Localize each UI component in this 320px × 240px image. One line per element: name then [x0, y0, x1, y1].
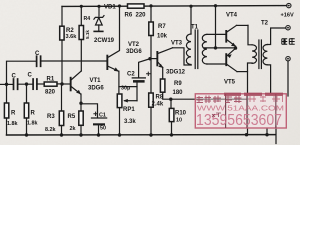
svg-text:VT2: VT2 [128, 42, 140, 48]
arrow VT1 emitter [76, 90, 81, 94]
svg-text:+16V: +16V [281, 13, 294, 19]
svg-text:R4: R4 [84, 16, 91, 22]
svg-text:C: C [12, 74, 17, 80]
node ground R3 [60, 133, 63, 136]
svg-text:R8: R8 [156, 95, 164, 101]
svg-text:3DG6: 3DG6 [126, 49, 142, 55]
svg-text:R9: R9 [174, 81, 182, 87]
node R9 R10 feedback [169, 98, 172, 101]
node VT1 emitter R5 [79, 102, 82, 105]
svg-text:C: C [35, 51, 40, 57]
svg-text:5.1k: 5.1k [85, 30, 90, 39]
svg-text:VT3: VT3 [171, 41, 183, 47]
svg-text:3DG12: 3DG12 [166, 70, 186, 76]
resistor R 1.8k second [26, 84, 28, 103]
resistor R8 [150, 59, 152, 93]
node ground R5 [79, 133, 82, 136]
terminal +16V center dot [288, 5, 290, 7]
resistor R1 [44, 82, 57, 86]
svg-text:10: 10 [176, 118, 182, 124]
arrow VT2 emitter [114, 67, 119, 71]
transformer T1 primary winding [186, 34, 191, 65]
capacitor C2 [132, 77, 145, 79]
svg-text:2k: 2k [70, 126, 76, 132]
capacitor C feedback [36, 56, 38, 66]
wire emitter supply drop [215, 6, 217, 48]
svg-text:10k: 10k [157, 34, 168, 40]
wire VT2 collector to rail [109, 6, 120, 57]
wire feedback line to VT2 base [41, 60, 106, 62]
transistor VT5 [225, 53, 227, 66]
terminal output top [286, 26, 290, 30]
paper grain [0, 0, 300, 145]
watermark column rules [225, 94, 227, 128]
wire VT5 collector to T2 [237, 71, 248, 73]
label output (Chinese 输出 drawn) [282, 38, 295, 44]
resistor R4 [80, 6, 82, 25]
capacitor C input 2 [32, 79, 34, 89]
node rail T1 primary [189, 5, 192, 8]
node ground R10 [170, 133, 173, 136]
wire T1 secondary top to VT4 base [207, 33, 225, 35]
svg-text:VT1: VT1 [90, 78, 102, 84]
svg-text:8.2k: 8.2k [45, 127, 56, 133]
wire T1 primary top lead [190, 6, 192, 34]
potentiometer RP1 [117, 94, 122, 108]
wire top supply rail [62, 5, 287, 8]
transistor VT3 [151, 58, 156, 60]
svg-text:820: 820 [45, 90, 56, 96]
wire below watermark to rail [275, 126, 277, 144]
resistor R2 [61, 6, 63, 26]
terminal output bottom [286, 57, 290, 61]
wire VT4 collector to T2 [237, 24, 249, 26]
node VT1 base [60, 82, 63, 85]
arrow VT4 emitter [231, 43, 236, 47]
svg-text:C2: C2 [127, 72, 135, 78]
svg-text:2.4k: 2.4k [152, 102, 164, 108]
wire T2 secondary bottom [267, 65, 270, 94]
svg-text:VT4: VT4 [226, 13, 238, 19]
node common emitters [234, 46, 237, 49]
watermark row1 right ticks [248, 96, 283, 103]
svg-text:R1: R1 [47, 77, 55, 83]
node ground T2 secondary [265, 133, 268, 136]
svg-text:R: R [31, 111, 36, 117]
wire stub T2 return to rail [266, 129, 268, 135]
svg-text:1.8k: 1.8k [7, 121, 18, 127]
resistor R9 [162, 68, 164, 80]
svg-text:T1: T1 [191, 25, 199, 31]
svg-text:3.6k: 3.6k [66, 34, 78, 40]
wire emitter to C2 jog [119, 86, 137, 88]
node ground T2 primary [245, 133, 248, 136]
resistor R3 [61, 84, 63, 111]
svg-text:R7: R7 [158, 24, 166, 30]
node rail VT2 collector [118, 4, 121, 7]
svg-text:C1: C1 [99, 113, 106, 119]
transistor VT2 [106, 55, 108, 70]
svg-text:3DG6: 3DG6 [88, 86, 104, 92]
node ground RP1 [118, 133, 121, 136]
node VT3 base [148, 57, 151, 60]
svg-text:50: 50 [100, 125, 106, 131]
node C1 plus sign [93, 112, 97, 116]
svg-text:T2: T2 [261, 21, 269, 27]
svg-text:C: C [28, 73, 33, 79]
watermark top border dashes [224, 93, 283, 96]
transistor VT1 [62, 83, 70, 85]
resistor R5 [80, 94, 82, 111]
node emitter supply [214, 46, 217, 49]
svg-text:R: R [11, 111, 16, 117]
watermark box [195, 94, 286, 128]
svg-text:3.3k: 3.3k [124, 119, 136, 125]
node input divider [25, 82, 28, 85]
resistor R6 [128, 4, 145, 8]
wire T1 center tap to emitters [205, 47, 236, 49]
svg-text:R3: R3 [47, 114, 55, 120]
arrowheads [76, 43, 236, 103]
resistor R7 [150, 6, 152, 22]
svg-text:R5: R5 [68, 114, 76, 120]
svg-text:R10: R10 [175, 111, 187, 117]
svg-text:RP1: RP1 [123, 107, 135, 113]
svg-text:30μ: 30μ [121, 86, 130, 92]
node rail emitter drop [214, 4, 217, 7]
node ground C1 [97, 133, 100, 136]
capacitor C1 branch [81, 104, 98, 118]
svg-text:R6 220: R6 220 [125, 13, 147, 19]
resistor R 1.8k first [6, 84, 8, 103]
wire feedback from output stage [171, 98, 248, 100]
wire bottom ground rail [7, 134, 276, 136]
svg-text:180: 180 [173, 90, 184, 96]
wire feedback riser [7, 61, 37, 84]
svg-text:VD1: VD1 [104, 5, 116, 11]
node ground R second [25, 133, 28, 136]
node C2 plus sign [146, 72, 150, 76]
node ground R8 [149, 133, 152, 136]
transformer T1 secondary winding [202, 34, 207, 64]
wire output terminal 2 lead [287, 61, 289, 96]
wire T2 secondary top to output [267, 28, 285, 45]
transformer T2 primary leads [248, 25, 252, 44]
arrow VT3 emitter [158, 64, 163, 68]
watermark chinese row [197, 96, 242, 104]
transformer T2 secondary winding [263, 45, 267, 65]
capacitor C input 1 [0, 83, 13, 85]
terminal output bottom center dot [287, 58, 289, 60]
watermark small dark mark [212, 113, 221, 117]
node rail VD1 [97, 5, 100, 8]
wiper arrow RP1 [125, 100, 138, 102]
wire T1 secondary bottom to VT5 base [207, 63, 225, 65]
terminal output top center dot [287, 27, 289, 29]
svg-text:VT5: VT5 [224, 80, 236, 86]
arrow RP1 wiper [123, 99, 128, 103]
svg-text:2CW19: 2CW19 [94, 38, 115, 44]
svg-text:13595653607: 13595653607 [196, 112, 282, 129]
node rail R7 [149, 4, 152, 7]
terminal +16V supply [287, 3, 291, 7]
transformer T2 core [258, 40, 260, 69]
arrow VT5 emitter [227, 54, 232, 58]
node rail R4 [80, 5, 83, 8]
svg-text:1.8k: 1.8k [27, 121, 38, 127]
zener VD1 bottom bar [93, 31, 103, 33]
transistor VT4 [225, 30, 227, 43]
resistor R10 [170, 99, 172, 108]
wire VT3 collector to T1 [173, 48, 192, 65]
zener diode VD1 [98, 6, 100, 16]
node input feedback [5, 83, 8, 86]
transformer T2 primary winding [252, 45, 256, 64]
transformer T1 core [194, 30, 196, 69]
